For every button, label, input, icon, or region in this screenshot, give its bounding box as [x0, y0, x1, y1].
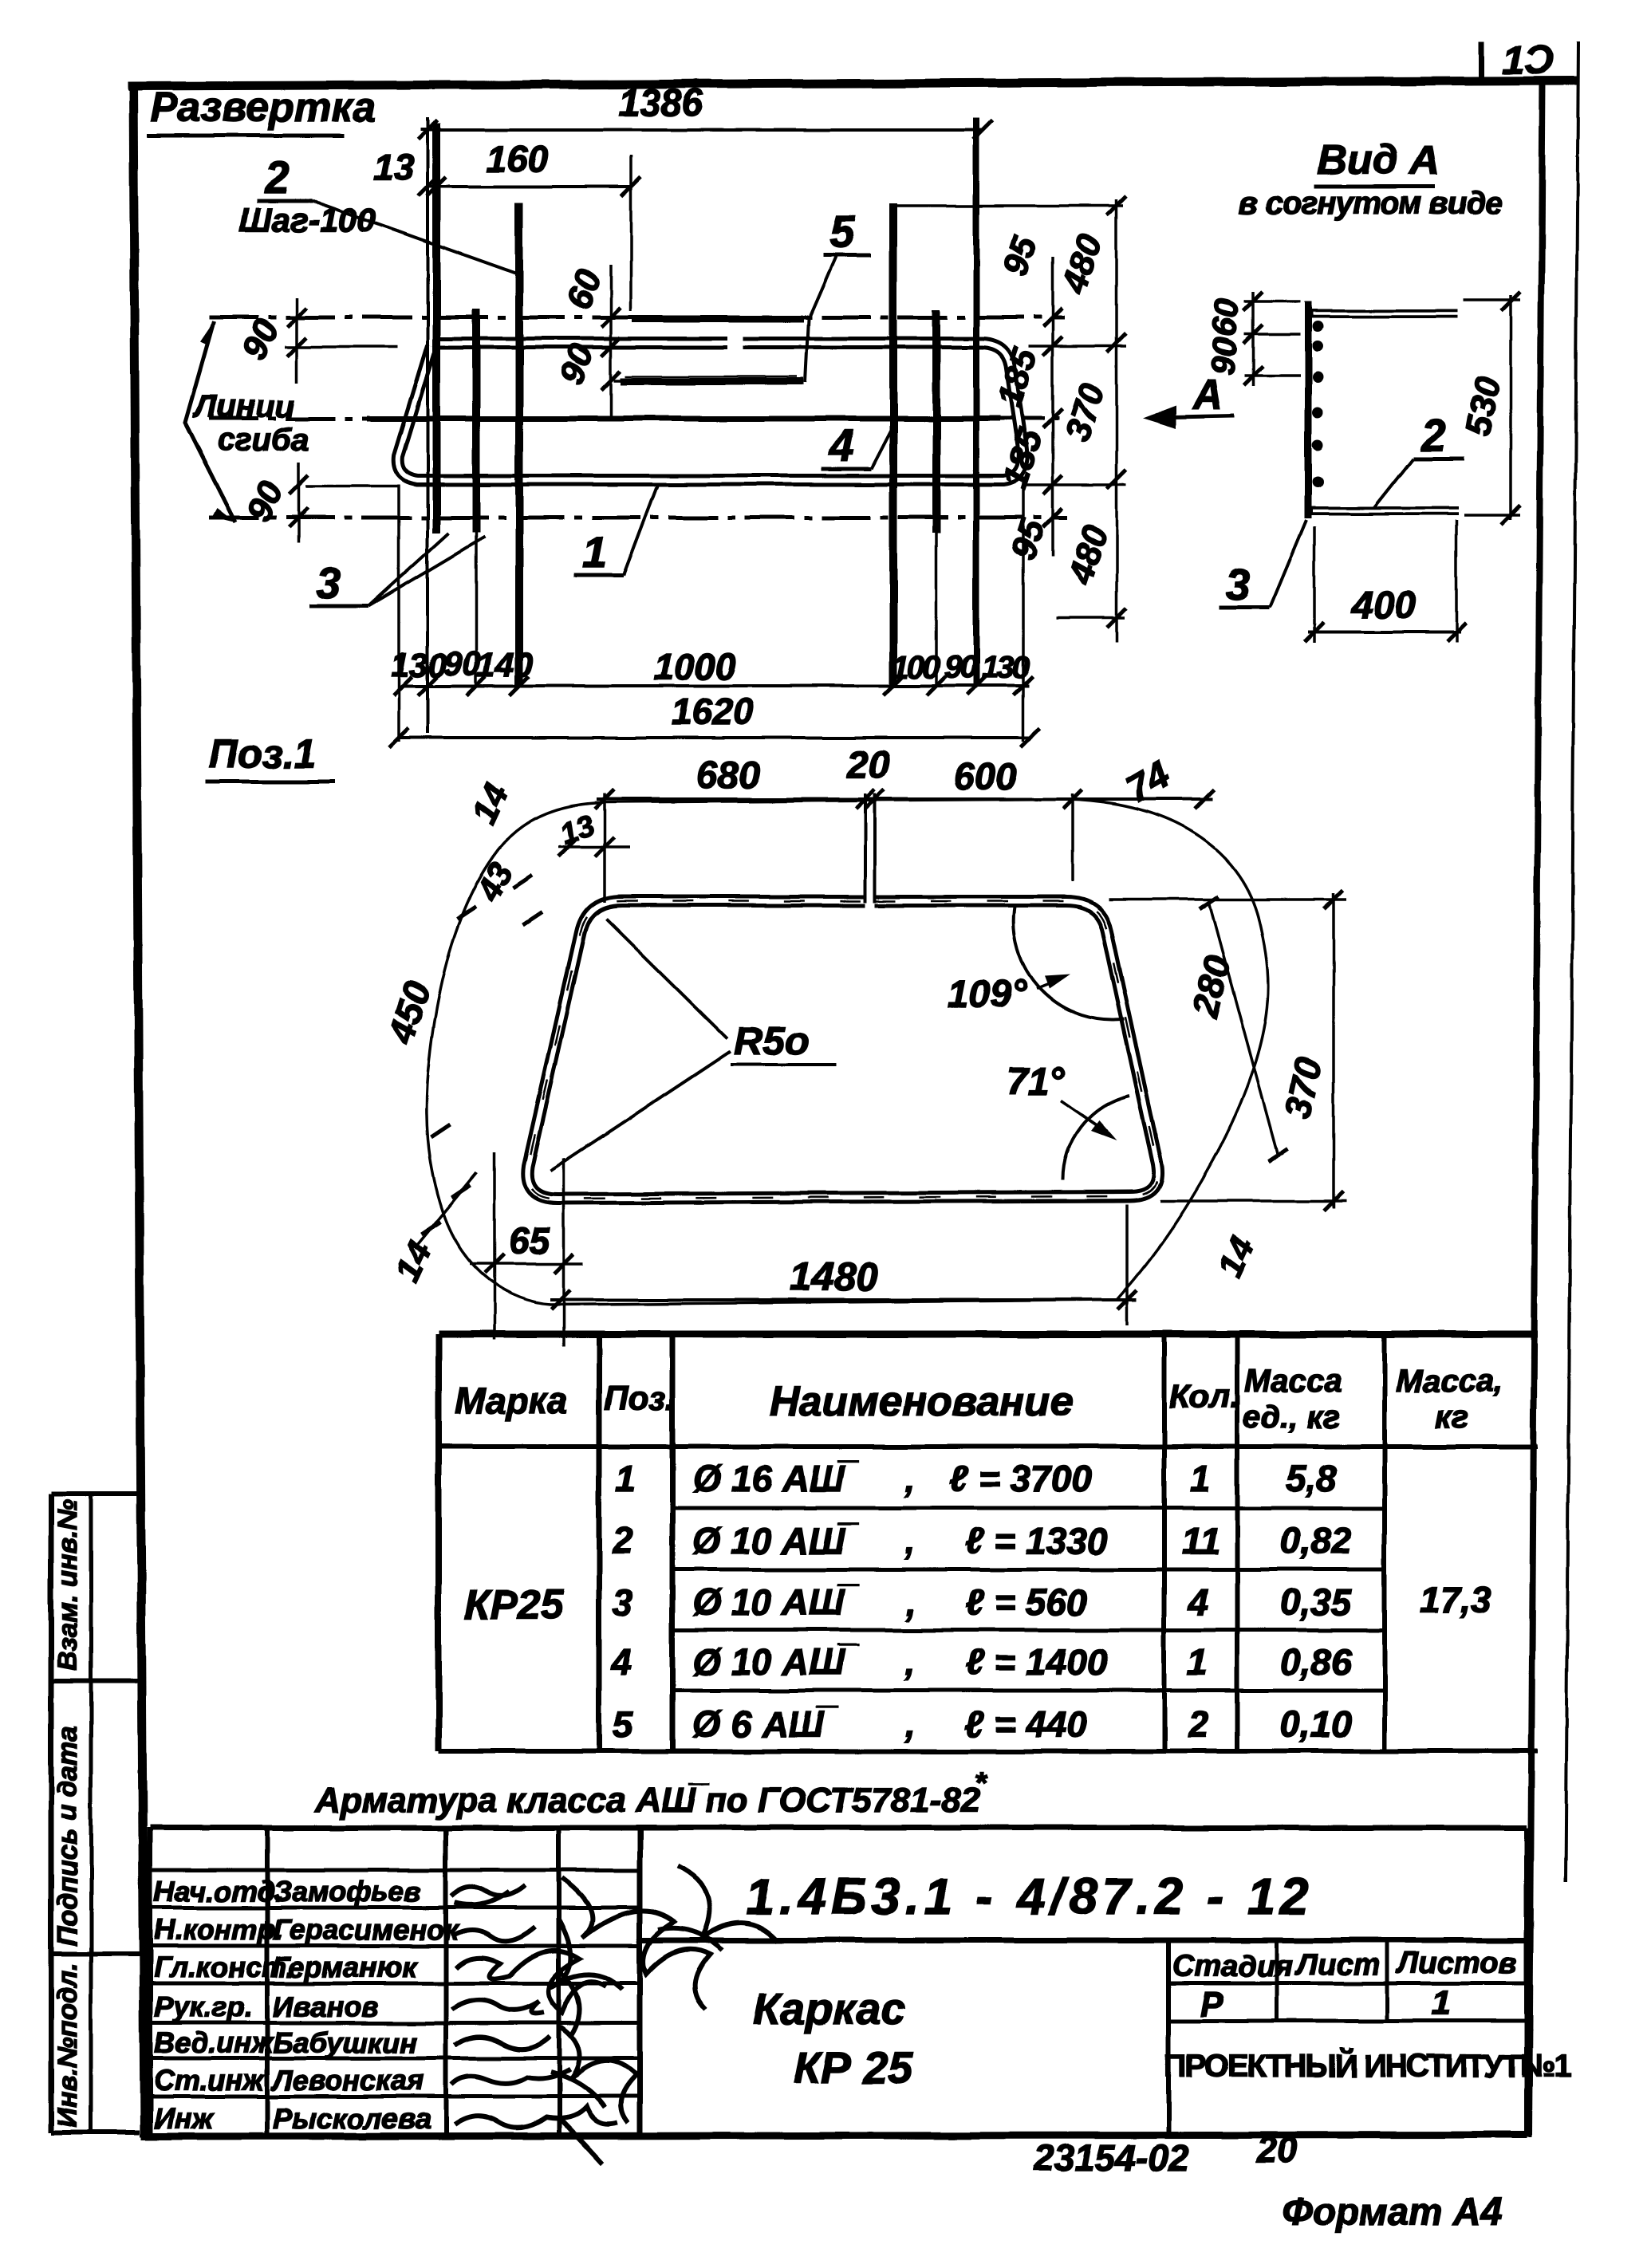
svg-text:кг: кг — [1436, 1400, 1469, 1435]
bent bar top flange — [1310, 309, 1458, 318]
cell Karkas KP25 — [753, 1983, 913, 2093]
label 3 with leader — [309, 533, 485, 608]
dimension 90 left bottom — [238, 463, 398, 542]
title block outer lines — [150, 1828, 1527, 2134]
svg-text:1480: 1480 — [790, 1254, 878, 1299]
outer right border line — [1566, 41, 1578, 1882]
extension line dim160 right — [629, 156, 632, 311]
svg-text:1.4Б3.1 - 4/87.2 - 12: 1.4Б3.1 - 4/87.2 - 12 — [746, 1868, 1314, 1925]
svg-text:Левонская: Левонская — [270, 2064, 424, 2097]
svg-text:,: , — [904, 1581, 916, 1623]
right dim line B 480-370-480 — [1054, 196, 1126, 642]
svg-text:Инв.№подл.: Инв.№подл. — [53, 1963, 83, 2128]
svg-text:Формат А4: Формат А4 — [1283, 2191, 1502, 2234]
bent bar bottom flange — [1310, 507, 1458, 516]
svg-text:20: 20 — [1255, 2129, 1298, 2171]
fold line bottom (dash-dot) — [209, 516, 1067, 520]
svg-text:Нач.отд.: Нач.отд. — [154, 1875, 282, 1908]
svg-text:ℓ = 1400: ℓ = 1400 — [965, 1641, 1108, 1683]
svg-text:в согнутом виде: в согнутом виде — [1239, 186, 1503, 221]
label Linii sgiba — [192, 389, 309, 458]
unit mass values — [1280, 1458, 1353, 1745]
svg-text:0,10: 0,10 — [1280, 1703, 1352, 1745]
dimension 160 — [418, 138, 640, 196]
weld dots — [1312, 321, 1323, 488]
note armatura klassa — [314, 1766, 988, 1820]
cross bar pos.2 left — [515, 203, 523, 686]
fold lines bracket arrows — [185, 321, 235, 522]
svg-text:Вед.инж: Вед.инж — [154, 2026, 274, 2059]
svg-text:90: 90 — [443, 644, 481, 682]
svg-text:1620: 1620 — [672, 691, 754, 732]
svg-text:Ст.инж: Ст.инж — [154, 2064, 266, 2097]
right dim line A 95-185-185-95 — [991, 231, 1062, 564]
small dim 13 at top corner — [556, 809, 630, 856]
cross bar pos.3 left a — [432, 124, 440, 533]
page number box tick — [1480, 41, 1485, 83]
document number — [746, 1868, 1314, 1925]
svg-text:Масса,: Масса, — [1396, 1364, 1503, 1399]
dim 60 90 view A — [1204, 292, 1300, 386]
svg-text:ед., кг: ед., кг — [1243, 1400, 1340, 1435]
dim 280 along right edge — [1184, 896, 1287, 1161]
svg-text:Каркас: Каркас — [753, 1983, 905, 2034]
dimension 13 — [373, 146, 415, 187]
svg-text:Германюк: Германюк — [273, 1951, 417, 1983]
svg-text:Замофьев: Замофьев — [273, 1875, 422, 1908]
svg-text:109°: 109° — [948, 973, 1027, 1015]
svg-text:КР 25: КР 25 — [794, 2042, 913, 2093]
cross bar pos.3 right a — [932, 309, 940, 686]
svg-text:20: 20 — [846, 744, 890, 786]
svg-text:130: 130 — [391, 646, 447, 683]
fold line top (dash-dot) — [209, 316, 1065, 320]
svg-text:ℓ = 440: ℓ = 440 — [965, 1703, 1087, 1745]
subtitle v sognutom vide — [1239, 186, 1503, 221]
svg-text:,: , — [904, 1703, 916, 1745]
svg-text:А: А — [1192, 372, 1223, 418]
cross bar pos.3 left b — [472, 309, 480, 686]
svg-text:Кол.: Кол. — [1169, 1377, 1239, 1415]
small mark 14 bottom right — [1210, 1230, 1262, 1282]
row 5 name — [692, 1703, 1087, 1745]
signature rows labels and names — [154, 1875, 460, 2135]
pos numbers — [610, 1458, 636, 1745]
svg-text:1Ͻ: 1Ͻ — [1503, 37, 1554, 82]
svg-text:,: , — [904, 1520, 916, 1561]
outer soft outline — [426, 799, 1268, 1305]
bottom dim line 130-90-140 / 1000 / 100-90-130 — [391, 644, 1033, 695]
angle 109 deg — [948, 907, 1125, 1020]
dimension 60 and 90 inner — [552, 264, 790, 416]
table grid — [439, 1334, 1538, 1751]
svg-text:1: 1 — [1187, 1641, 1208, 1683]
svg-text:Ø 10 АШ̅: Ø 10 АШ̅ — [692, 1641, 859, 1683]
format A4 — [1283, 2191, 1502, 2234]
svg-text:Наименование: Наименование — [770, 1379, 1074, 1425]
svg-text:Иванов: Иванов — [273, 1990, 379, 2023]
svg-text:Взам. инв.№: Взам. инв.№ — [53, 1499, 83, 1671]
extension line 1620 left — [397, 485, 400, 742]
dim 370 right — [1109, 890, 1346, 1211]
svg-text:Ø 6 АШ̅: Ø 6 АШ̅ — [692, 1703, 838, 1745]
svg-text:Н.контр.: Н.контр. — [154, 1913, 283, 1946]
svg-text:ℓ = 1330: ℓ = 1330 — [965, 1520, 1108, 1561]
svg-text:2: 2 — [264, 152, 290, 203]
svg-text:1386: 1386 — [618, 82, 703, 124]
view title Razvertka — [147, 85, 376, 136]
svg-text:1: 1 — [1432, 1983, 1451, 2022]
svg-text:R5o: R5o — [734, 1018, 809, 1063]
svg-text:2: 2 — [1188, 1703, 1209, 1745]
top dim line 680 20 600 74 — [595, 744, 1214, 812]
page number 10 — [1503, 37, 1554, 82]
bars pos.5 short horizontals — [621, 319, 804, 381]
row 2 name — [692, 1520, 1108, 1561]
svg-text:Стадия: Стадия — [1172, 1950, 1293, 1983]
note Shag-100 — [239, 201, 376, 238]
svg-text:Масса: Масса — [1244, 1364, 1342, 1399]
svg-text:КР25: КР25 — [464, 1582, 565, 1628]
bar pos.4 middle horizontal — [367, 416, 1000, 422]
svg-text:Р: Р — [1200, 1985, 1224, 2024]
right ext line y198 — [893, 204, 1123, 207]
svg-text:0,86: 0,86 — [1280, 1641, 1352, 1683]
stadia list listov sub-table — [1168, 1940, 1527, 2134]
row 3 name — [692, 1581, 1087, 1623]
svg-text:23154-02: 23154-02 — [1033, 2137, 1189, 2179]
dimension 90 left top — [234, 297, 398, 383]
frame left border — [133, 83, 144, 2137]
view title Vid A — [1314, 137, 1440, 187]
label 1 with leader — [574, 485, 658, 577]
mark KP25 — [464, 1582, 565, 1628]
handwritten 23154-02 20 — [1033, 2129, 1298, 2179]
strip text podpis i data — [53, 1726, 83, 1946]
design institute name — [1164, 2047, 1572, 2084]
angle 71 deg — [1007, 1061, 1129, 1180]
svg-text:60: 60 — [1205, 297, 1246, 338]
svg-text:Лист: Лист — [1294, 1948, 1380, 1982]
svg-text:160: 160 — [487, 138, 548, 179]
extension line 1620 right — [1022, 482, 1025, 742]
label 2 view A — [1373, 410, 1464, 509]
svg-text:4: 4 — [829, 420, 854, 471]
svg-text:Марка: Марка — [455, 1380, 568, 1421]
right ext line y434 — [1029, 345, 1126, 348]
label 2 with leader — [257, 152, 517, 274]
svg-text:Ø 16 АШ̅: Ø 16 АШ̅ — [692, 1458, 859, 1499]
svg-text:17,3: 17,3 — [1420, 1579, 1491, 1620]
svg-text:Герасименок: Герасименок — [273, 1913, 460, 1946]
svg-text:Арматура класса АШ̅ по ГОСТ5: Арматура класса АШ̅ по ГОСТ5781-82 — [314, 1781, 981, 1820]
svg-text:3: 3 — [316, 557, 341, 608]
svg-text:1: 1 — [582, 527, 607, 577]
svg-text:1: 1 — [616, 1458, 636, 1499]
gap extension lines 20 — [865, 793, 875, 903]
dim 530 view A — [1459, 292, 1520, 525]
ring bar pos.1 (double line trapezoid R50) — [527, 901, 1158, 1199]
svg-text:ℓ = 3700: ℓ = 3700 — [949, 1458, 1092, 1499]
svg-text:2: 2 — [612, 1520, 633, 1561]
dim 65 bottom left — [470, 1152, 583, 1346]
dimension 1386 — [418, 82, 992, 140]
svg-text:90: 90 — [1204, 336, 1244, 376]
svg-text:Развертка: Развертка — [150, 85, 376, 131]
svg-text:Рысколева: Рысколева — [273, 2102, 431, 2135]
table headers — [455, 1364, 1503, 1435]
signature table grid — [150, 1828, 640, 2134]
svg-text:13: 13 — [373, 146, 415, 187]
svg-text:4: 4 — [610, 1641, 632, 1683]
cross bar extension line left pair — [426, 118, 429, 734]
fold line middle (dash-dot) — [209, 417, 1059, 421]
small dim 43 upper left — [431, 856, 542, 1137]
svg-text:,: , — [904, 1641, 916, 1683]
svg-text:5,8: 5,8 — [1286, 1458, 1337, 1499]
view direction arrow A — [1142, 372, 1235, 428]
svg-text:71°: 71° — [1007, 1061, 1065, 1103]
dim 400 view A — [1305, 520, 1466, 643]
svg-text:Линии: Линии — [192, 389, 294, 424]
right ext line y775 — [1057, 616, 1125, 620]
ext top dim left — [603, 793, 606, 903]
svg-text:Ø 10 АШ̅: Ø 10 АШ̅ — [692, 1581, 859, 1623]
label 4 with leader — [822, 420, 895, 471]
svg-text:Инж: Инж — [154, 2102, 215, 2135]
bent bar vertical — [1305, 301, 1312, 518]
svg-text:,: , — [904, 1458, 916, 1499]
svg-text:1000: 1000 — [654, 646, 736, 687]
total mass 17.3 — [1420, 1579, 1491, 1620]
svg-text:ПРОЕКТНЫЙ ИНСТИТУТ№1: ПРОЕКТНЫЙ ИНСТИТУТ№1 — [1164, 2047, 1572, 2084]
dim 1480 bottom — [550, 1204, 1137, 1325]
svg-text:4: 4 — [1188, 1581, 1209, 1623]
frame bottom border — [141, 2135, 1527, 2136]
signature scribbles — [451, 1866, 778, 2164]
small mark 14 bottom left — [388, 1235, 439, 1287]
dim 450 left rotated — [380, 976, 439, 1048]
cross bar pos.3 right b — [973, 118, 979, 686]
svg-text:Шаг-100: Шаг-100 — [239, 201, 376, 238]
row 4 name — [692, 1641, 1108, 1683]
svg-text:2: 2 — [1420, 410, 1446, 460]
frame top border — [128, 81, 1577, 86]
svg-text:400: 400 — [1351, 585, 1416, 627]
svg-text:65: 65 — [509, 1220, 551, 1262]
row 1 name — [692, 1458, 1092, 1499]
svg-text:сгиба: сгиба — [217, 423, 309, 458]
svg-text:680: 680 — [696, 754, 760, 797]
svg-text:Подпись и дата: Подпись и дата — [53, 1726, 83, 1946]
svg-text:Поз.: Поз. — [604, 1380, 675, 1417]
svg-text:3: 3 — [1225, 559, 1250, 609]
svg-text:0,35: 0,35 — [1280, 1581, 1353, 1623]
strip text vzam inv no — [53, 1499, 83, 1671]
view title Poz.1 — [206, 731, 335, 782]
label 3 view A — [1219, 520, 1306, 609]
qty values — [1182, 1458, 1220, 1745]
svg-text:5: 5 — [829, 207, 855, 257]
svg-text:Ø 10 АШ̅: Ø 10 АШ̅ — [692, 1520, 859, 1561]
svg-text:0,82: 0,82 — [1280, 1520, 1352, 1561]
frame right border — [1529, 80, 1543, 2137]
svg-text:140: 140 — [477, 646, 533, 683]
right ext line y608 — [1024, 483, 1126, 486]
svg-text:*: * — [975, 1766, 988, 1800]
svg-text:5: 5 — [613, 1703, 634, 1745]
svg-text:Рук.гр.: Рук.гр. — [154, 1990, 253, 2023]
label 5 with leader — [806, 207, 871, 383]
strip text inv no podl — [53, 1963, 83, 2128]
svg-text:1: 1 — [1190, 1458, 1211, 1499]
svg-text:100 90 130: 100 90 130 — [892, 650, 1030, 685]
svg-text:Поз.1: Поз.1 — [209, 731, 316, 776]
ext top dim 600 right — [1071, 793, 1074, 881]
small slanted tick line bottom left — [415, 1172, 477, 1248]
small mark 14 top left — [464, 778, 516, 829]
cross bar pos.2 right — [889, 203, 897, 686]
svg-text:Листов: Листов — [1395, 1947, 1517, 1980]
strip boxes — [51, 1494, 140, 2132]
svg-text:Бабушкин: Бабушкин — [273, 2026, 417, 2059]
bottom dim line 1620 — [389, 691, 1040, 747]
svg-text:600: 600 — [953, 756, 1017, 798]
bar pos.1 outline in development (outer+inner double line) — [398, 343, 1023, 480]
svg-text:ℓ = 560: ℓ = 560 — [965, 1581, 1087, 1623]
svg-text:11: 11 — [1182, 1520, 1220, 1561]
svg-text:Вид А: Вид А — [1318, 137, 1440, 183]
svg-text:3: 3 — [613, 1581, 633, 1623]
radius R50 with leaders — [550, 919, 836, 1171]
